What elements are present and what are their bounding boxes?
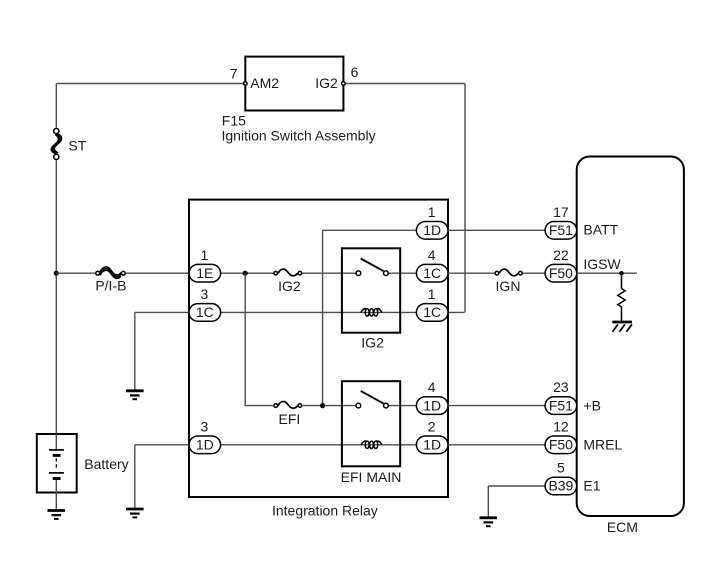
svg-text:AM2: AM2 — [250, 75, 279, 91]
wire P/I-B to relay — [126, 272, 189, 274]
label pin 3 of 1C — [201, 286, 209, 302]
wire row C to ground — [135, 312, 189, 390]
svg-text:F50: F50 — [549, 265, 573, 281]
svg-text:+B: +B — [583, 397, 601, 413]
label pin 4 of 1C — [428, 247, 436, 263]
svg-text:B39: B39 — [548, 478, 573, 494]
connector 1D pin3 — [189, 436, 221, 454]
node junction IGSW — [619, 271, 624, 276]
connector 1D pin4 — [416, 397, 448, 415]
svg-text:1: 1 — [428, 204, 436, 220]
pin 7 AM2 — [244, 82, 248, 86]
label MREL — [583, 437, 622, 453]
svg-text:1D: 1D — [423, 437, 441, 453]
svg-text:1: 1 — [428, 286, 436, 302]
label +B — [583, 397, 601, 413]
ECM box — [577, 157, 684, 517]
label fuse EFI — [279, 411, 301, 427]
relay EFI MAIN box — [342, 381, 400, 466]
node junction 1E — [243, 271, 248, 276]
svg-text:P/I-B: P/I-B — [95, 278, 126, 294]
relay EFI MAIN switch — [356, 391, 388, 408]
svg-text:BATT: BATT — [583, 222, 618, 238]
integration relay box — [189, 200, 448, 497]
label ST — [68, 138, 86, 154]
svg-text:1D: 1D — [196, 437, 214, 453]
relay IG2 switch — [356, 259, 388, 276]
svg-text:3: 3 — [201, 286, 209, 302]
label pin 4 of 1D — [428, 379, 436, 395]
svg-text:1: 1 — [201, 247, 209, 263]
svg-text:Integration Relay: Integration Relay — [272, 502, 378, 518]
wire to P/I-B fuse — [56, 272, 95, 274]
label pin 22 — [553, 247, 569, 263]
wire E1 row — [488, 486, 545, 518]
label P/I-B — [95, 278, 126, 294]
relay IG2 box — [342, 248, 400, 332]
ground resistor hatched — [612, 322, 632, 332]
svg-text:3: 3 — [201, 418, 209, 434]
svg-text:ECM: ECM — [607, 519, 638, 535]
ground row C — [126, 391, 144, 399]
svg-text:F15: F15 — [222, 112, 246, 128]
resistor R inside ECM — [618, 273, 625, 322]
label AM2 — [250, 75, 279, 91]
svg-text:Ignition Switch Assembly: Ignition Switch Assembly — [222, 128, 376, 144]
svg-text:F51: F51 — [549, 222, 573, 238]
svg-text:IGSW: IGSW — [583, 256, 621, 272]
svg-text:17: 17 — [553, 204, 569, 220]
svg-text:1D: 1D — [423, 222, 441, 238]
svg-text:IG2: IG2 — [361, 334, 384, 350]
fuse IG2 — [274, 269, 302, 276]
ground battery — [48, 511, 66, 519]
label E1 — [583, 478, 600, 494]
wire to 1C pin1 — [448, 311, 465, 313]
connector 1D pin1 — [416, 222, 448, 240]
wire +B row — [448, 405, 545, 407]
label IGSW — [583, 256, 621, 272]
connector 1C pin1 — [416, 304, 448, 322]
svg-text:12: 12 — [553, 418, 569, 434]
node junction P/I-B — [54, 271, 59, 276]
wire left bus lower — [55, 160, 57, 434]
wire IG2 down — [464, 84, 466, 313]
wire IGSW row left — [448, 272, 494, 274]
ground row E — [126, 509, 144, 517]
svg-text:5: 5 — [557, 460, 565, 476]
label pin 2 of 1D — [428, 418, 436, 434]
pin 6 IG2 — [342, 82, 346, 86]
label BATT — [583, 222, 618, 238]
svg-text:7: 7 — [230, 65, 238, 81]
connector 1C pin3 — [189, 304, 221, 322]
label relay IG2 — [361, 334, 384, 350]
label pin 12 — [553, 418, 569, 434]
svg-text:IG2: IG2 — [278, 278, 301, 294]
connector F51 pin17 — [545, 222, 577, 240]
svg-text:1E: 1E — [196, 265, 213, 281]
svg-text:1C: 1C — [423, 304, 441, 320]
label IG2 pin — [315, 75, 338, 91]
svg-text:1C: 1C — [423, 265, 441, 281]
wire row E to ground — [135, 445, 189, 509]
label ECM — [607, 519, 638, 535]
wire top bus — [56, 83, 243, 85]
wire row A inside relay — [323, 229, 417, 231]
connector 1E — [189, 264, 221, 282]
connector F51 pin23 — [545, 397, 577, 415]
svg-text:2: 2 — [428, 418, 436, 434]
svg-text:1D: 1D — [423, 397, 441, 413]
svg-text:EFI MAIN: EFI MAIN — [341, 469, 402, 485]
connector 1C pin4 — [416, 264, 448, 282]
connector B39 pin5 — [545, 477, 577, 495]
battery plates — [49, 434, 64, 511]
svg-text:MREL: MREL — [583, 437, 622, 453]
label pin 5 — [557, 460, 565, 476]
relay IG2 coil — [361, 309, 382, 317]
ground E1 — [480, 518, 498, 526]
ignition switch box F15 — [245, 57, 343, 111]
label Ignition Switch Assembly — [222, 128, 376, 144]
svg-text:IG2: IG2 — [315, 75, 338, 91]
label F15 — [222, 112, 246, 128]
battery box — [37, 434, 77, 493]
svg-text:23: 23 — [553, 379, 569, 395]
fuse EFI — [274, 402, 302, 409]
svg-text:E1: E1 — [583, 478, 600, 494]
node junction EFI — [320, 403, 325, 408]
label pin 6 — [351, 64, 359, 80]
fuse ST — [51, 128, 61, 159]
label Integration Relay — [272, 502, 378, 518]
label pin 3 of 1D — [201, 418, 209, 434]
wire MREL row — [448, 444, 545, 446]
wire BATT row — [448, 229, 545, 231]
label pin 1 of 1E — [201, 247, 209, 263]
wire IGN to F50 — [523, 272, 545, 274]
wire left bus upper — [55, 84, 57, 128]
svg-text:4: 4 — [428, 247, 436, 263]
svg-text:IGN: IGN — [496, 278, 521, 294]
svg-text:22: 22 — [553, 247, 569, 263]
connector F50 pin12 — [545, 436, 577, 454]
wire vertical 1D to EFI junction — [322, 230, 324, 405]
label pin 17 — [553, 204, 569, 220]
wire vertical 1E to EFI — [245, 273, 273, 405]
fuse IGN — [495, 269, 522, 276]
svg-text:ST: ST — [68, 138, 86, 154]
label pin 1 of 1C — [428, 286, 436, 302]
svg-text:EFI: EFI — [279, 411, 301, 427]
label pin 23 — [553, 379, 569, 395]
svg-text:6: 6 — [351, 64, 359, 80]
relay EFI MAIN coil — [361, 441, 382, 449]
wire row D inside relay — [302, 405, 416, 407]
label relay EFI MAIN — [341, 469, 402, 485]
wire row E inside relay — [221, 444, 417, 446]
fuse P/I-B — [96, 267, 125, 279]
label IGN — [496, 278, 521, 294]
svg-text:Battery: Battery — [84, 456, 128, 472]
connector 1D pin2 — [416, 436, 448, 454]
svg-text:1C: 1C — [196, 304, 214, 320]
wire IGSW inside ECM — [577, 272, 637, 274]
svg-text:F51: F51 — [549, 397, 573, 413]
wire row B inside relay — [221, 272, 417, 274]
wire IG2 pin right — [346, 83, 465, 85]
label pin 7 — [230, 65, 238, 81]
label fuse IG2 — [278, 278, 301, 294]
connector F50 pin22 — [545, 264, 577, 282]
svg-text:F50: F50 — [549, 437, 573, 453]
label pin 1 of 1D — [428, 204, 436, 220]
wire row C inside relay — [221, 311, 417, 313]
svg-text:4: 4 — [428, 379, 436, 395]
label Battery — [84, 456, 128, 472]
